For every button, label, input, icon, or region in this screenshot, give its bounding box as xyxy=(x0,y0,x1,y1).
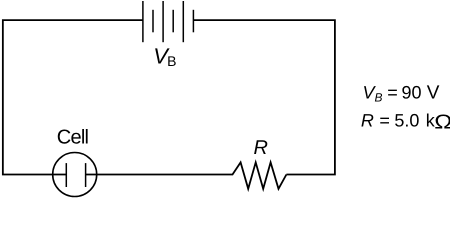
svg-text:V: V xyxy=(427,83,440,104)
svg-text:Cell: Cell xyxy=(57,127,89,149)
svg-text:B: B xyxy=(167,53,176,69)
svg-text:R: R xyxy=(361,111,374,131)
svg-text:=: = xyxy=(379,111,390,131)
svg-text:Ω: Ω xyxy=(434,111,450,133)
svg-text:B: B xyxy=(375,90,383,104)
svg-text:=: = xyxy=(387,82,398,102)
svg-text:R: R xyxy=(254,137,268,159)
svg-text:90: 90 xyxy=(402,82,422,102)
svg-text:5.0: 5.0 xyxy=(394,111,419,131)
